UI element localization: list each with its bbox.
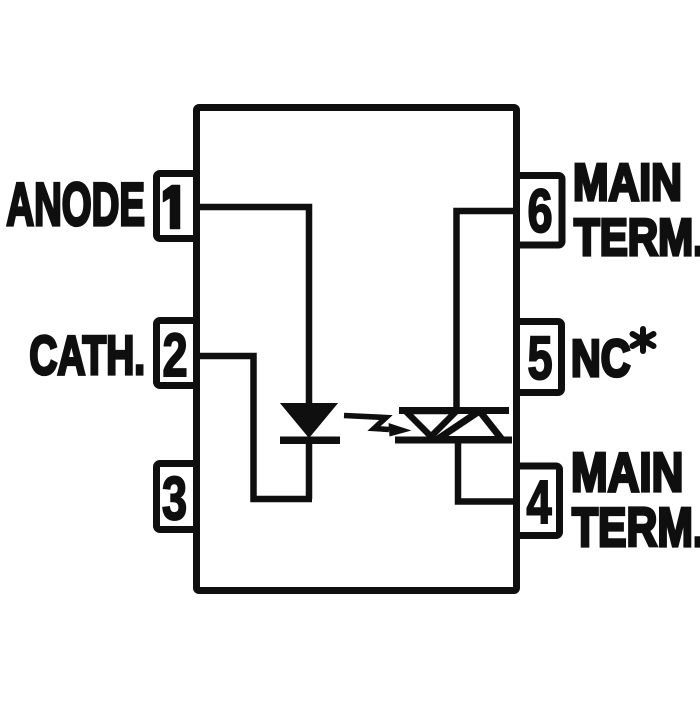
pin 1 number xyxy=(164,186,180,229)
svg-text:5: 5 xyxy=(527,324,552,392)
photon arrow (optical coupling) xyxy=(344,416,389,430)
svg-text:TERM.: TERM. xyxy=(572,497,700,558)
pin 5 box xyxy=(517,322,562,393)
triac Q1 left triangle xyxy=(406,411,457,437)
wire pin2 to LED cathode xyxy=(197,356,312,499)
svg-text:NC: NC xyxy=(571,330,630,387)
svg-text:CATH.: CATH. xyxy=(29,325,145,386)
pin 3 box xyxy=(157,464,197,530)
optocoupler package body U1 xyxy=(197,108,517,591)
triac Q1 top bar (MT2) xyxy=(399,407,509,414)
LED D1 cathode bar xyxy=(280,437,340,445)
pin 4 box xyxy=(517,466,560,536)
svg-text:3: 3 xyxy=(162,465,187,533)
wire triac MT1 to pin4 xyxy=(458,442,516,502)
wire pin6 to triac MT2 xyxy=(457,211,517,408)
pin 1 box xyxy=(157,174,197,239)
wire LED cathode down xyxy=(306,444,313,499)
svg-text:MAIN: MAIN xyxy=(571,441,683,503)
svg-text:MAIN: MAIN xyxy=(573,154,682,212)
svg-text:2: 2 xyxy=(162,321,187,389)
svg-text:4: 4 xyxy=(526,468,551,536)
triac Q1 bottom bar (MT1) xyxy=(395,437,512,444)
triac Q1 right triangle xyxy=(437,411,502,440)
asterisk of NC* xyxy=(633,329,654,351)
pin 6 box xyxy=(517,176,563,246)
wire pin1 to LED anode xyxy=(197,207,309,406)
pin 2 box xyxy=(157,321,197,386)
svg-text:6: 6 xyxy=(527,177,552,245)
svg-text:TERM.: TERM. xyxy=(574,208,700,266)
svg-text:ANODE: ANODE xyxy=(6,170,145,238)
LED D1 anode triangle xyxy=(282,404,336,437)
